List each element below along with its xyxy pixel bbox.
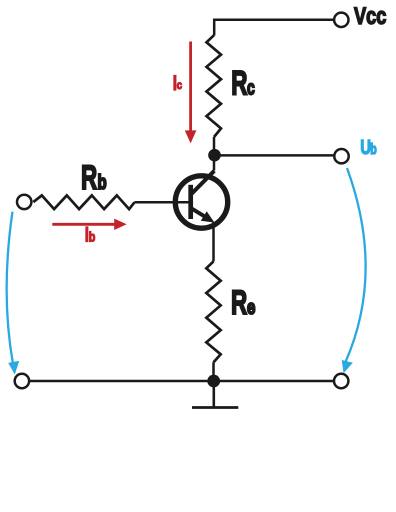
label Rb	[81, 160, 107, 198]
wire node to Ub terminal	[215, 154, 334, 157]
svg-text:R: R	[81, 160, 97, 198]
wire emitter lead	[212, 222, 215, 261]
svg-text:R: R	[231, 65, 247, 103]
cyan arc right	[346, 168, 366, 362]
red arrow Ic	[189, 42, 192, 132]
bottom-right terminal	[334, 374, 348, 388]
bottom-left terminal	[15, 374, 29, 388]
svg-text:c: c	[177, 79, 182, 92]
wire bottom rail	[30, 380, 334, 383]
label Ub	[360, 136, 376, 159]
svg-text:b: b	[98, 171, 107, 194]
junction node	[207, 375, 220, 388]
cyan arc left	[7, 212, 13, 364]
resistor Rb	[33, 195, 134, 209]
wire collector lead	[213, 156, 216, 171]
label Ib	[85, 222, 96, 246]
label Rc	[231, 65, 255, 103]
resistor Rc	[207, 35, 222, 137]
svg-text:b: b	[370, 141, 377, 157]
svg-text:R: R	[231, 284, 247, 322]
svg-text:U: U	[360, 136, 371, 159]
svg-text:e: e	[247, 296, 255, 319]
wire base lead	[135, 201, 190, 204]
wire Re to junction	[212, 362, 215, 381]
svg-text:c: c	[247, 76, 255, 99]
label Ic	[173, 71, 182, 95]
wire Vcc top	[214, 20, 333, 36]
svg-text:b: b	[89, 230, 96, 245]
wire Rc to node	[213, 137, 216, 155]
input terminal	[17, 195, 31, 209]
svg-text:Vcc: Vcc	[354, 3, 387, 30]
terminal Ub	[334, 149, 348, 163]
ground	[192, 387, 238, 408]
terminal Vcc	[334, 13, 348, 27]
resistor Re	[206, 261, 220, 362]
red arrow Ib	[52, 223, 116, 226]
node collector	[208, 149, 221, 162]
label Re	[231, 284, 255, 322]
transistor Q1	[175, 171, 227, 228]
